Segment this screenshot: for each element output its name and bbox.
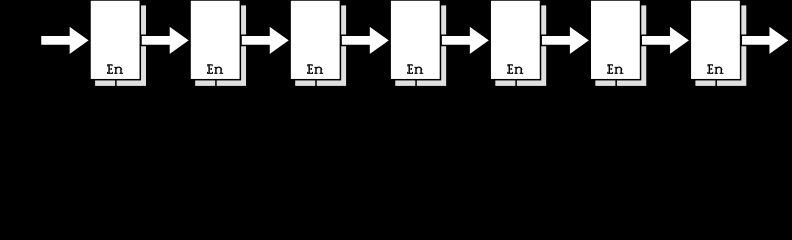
register U7 enable pin stub <box>715 79 717 88</box>
drop shadow of register U7 <box>695 5 746 86</box>
register U3 body <box>290 0 340 80</box>
glyph n <box>114 67 123 74</box>
signal-flow arrow A7 (output) <box>741 25 789 55</box>
register U1 body <box>90 0 140 80</box>
signal-flow arrow A6 (U6 to U7) <box>641 25 690 55</box>
signal-flow arrow A2 (U2 to U3) <box>241 25 290 55</box>
register U2 enable pin stub <box>215 79 217 88</box>
drop shadow of register U4 <box>395 5 446 86</box>
signal-flow arrow A0 (input) <box>41 25 90 55</box>
register U5 label "En" <box>507 64 523 74</box>
drop shadow of register U6 <box>595 5 646 86</box>
drop shadow of register U3 <box>295 5 346 86</box>
register U2 body <box>190 0 240 80</box>
register U6 body <box>590 0 640 80</box>
register U6 label "En" <box>607 64 623 74</box>
register U7 body <box>690 0 740 80</box>
signal-flow arrow A1 (U1 to U2) <box>141 25 190 55</box>
drop shadow of register U2 <box>195 5 246 86</box>
register U5 body <box>490 0 540 80</box>
register U3 enable pin stub <box>315 79 317 88</box>
drop shadow of register U1 <box>95 5 146 86</box>
register U2 label "En" <box>207 64 223 74</box>
register U4 body <box>390 0 440 80</box>
signal-flow arrow A4 (U4 to U5) <box>441 25 490 55</box>
register U1 enable pin stub <box>115 79 117 88</box>
glyph E <box>107 64 113 74</box>
signal-flow arrow A3 (U3 to U4) <box>341 25 390 55</box>
register U4 label "En" <box>407 64 423 74</box>
register U6 enable pin stub <box>615 79 617 88</box>
register U4 enable pin stub <box>415 79 417 88</box>
register U1 label "En" <box>107 64 123 74</box>
register U3 label "En" <box>307 64 323 74</box>
register U5 enable pin stub <box>515 79 517 88</box>
signal-flow arrow A5 (U5 to U6) <box>541 25 590 55</box>
drop shadow of register U5 <box>495 5 546 86</box>
register U7 label "En" <box>707 64 723 74</box>
